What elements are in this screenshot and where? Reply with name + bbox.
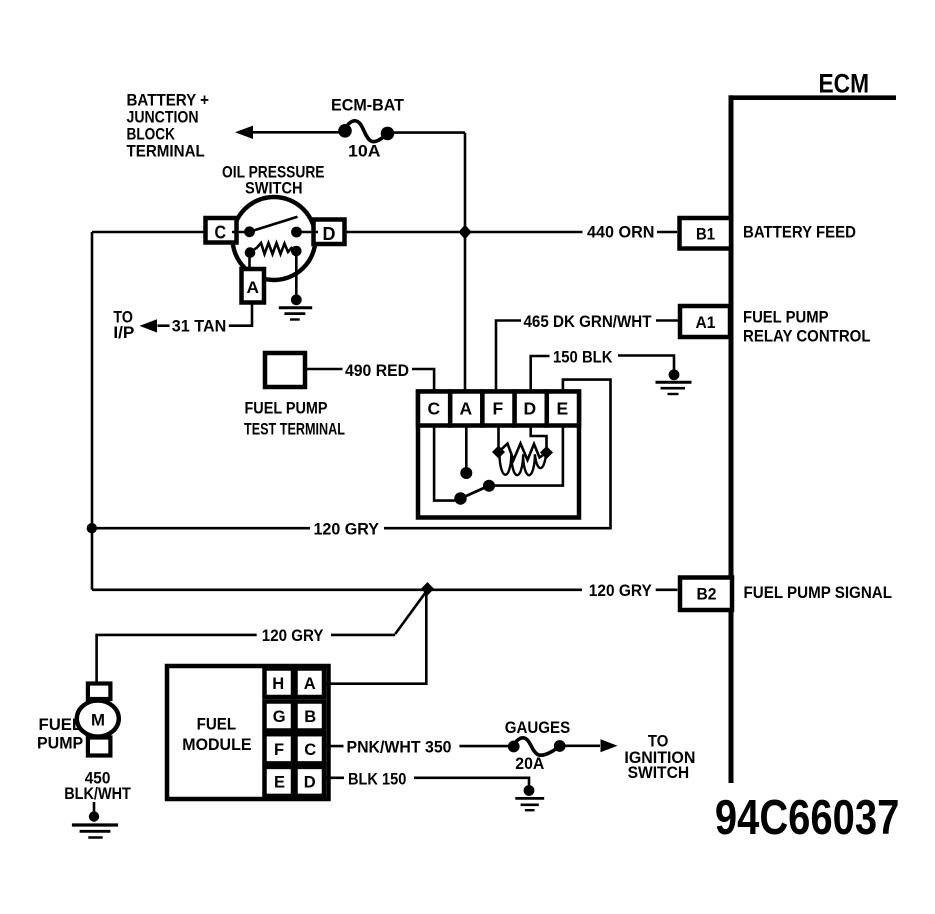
svg-text:SWITCH: SWITCH <box>245 179 303 198</box>
svg-text:B2: B2 <box>697 585 717 604</box>
svg-text:ECM: ECM <box>819 69 870 99</box>
svg-text:120 GRY: 120 GRY <box>314 519 380 538</box>
svg-text:A: A <box>247 278 260 297</box>
svg-text:BATTERY FEED: BATTERY FEED <box>743 223 856 242</box>
svg-text:E: E <box>557 399 569 419</box>
svg-text:20A: 20A <box>515 754 544 773</box>
svg-text:F: F <box>493 399 504 419</box>
svg-text:A: A <box>460 399 473 419</box>
svg-text:RELAY CONTROL: RELAY CONTROL <box>743 327 871 346</box>
svg-text:BLK/WHT: BLK/WHT <box>64 784 131 803</box>
svg-text:A1: A1 <box>696 313 716 332</box>
svg-text:MODULE: MODULE <box>182 735 251 754</box>
svg-text:GAUGES: GAUGES <box>505 718 571 737</box>
svg-text:FUEL PUMP SIGNAL: FUEL PUMP SIGNAL <box>744 583 893 602</box>
svg-text:D: D <box>304 774 316 792</box>
svg-text:120 GRY: 120 GRY <box>589 581 653 600</box>
svg-text:D: D <box>524 399 537 419</box>
svg-text:E: E <box>274 774 285 792</box>
svg-text:D: D <box>323 224 336 244</box>
svg-text:C: C <box>215 223 227 243</box>
svg-text:465 DK GRN/WHT: 465 DK GRN/WHT <box>524 312 653 331</box>
svg-text:FUEL: FUEL <box>197 714 237 733</box>
svg-text:G: G <box>273 708 286 726</box>
svg-text:FUEL PUMP: FUEL PUMP <box>245 399 328 418</box>
svg-text:FUEL PUMP: FUEL PUMP <box>743 308 829 327</box>
svg-text:I/P: I/P <box>113 323 134 342</box>
svg-text:TEST TERMINAL: TEST TERMINAL <box>244 420 345 439</box>
svg-text:H: H <box>272 675 284 693</box>
svg-text:C: C <box>428 399 441 419</box>
svg-text:C: C <box>304 741 316 759</box>
svg-text:31 TAN: 31 TAN <box>172 317 227 336</box>
svg-text:B: B <box>304 708 316 726</box>
svg-text:A: A <box>304 675 316 693</box>
svg-text:SWITCH: SWITCH <box>628 763 690 782</box>
svg-text:120 GRY: 120 GRY <box>262 626 324 645</box>
svg-text:BLK 150: BLK 150 <box>348 769 406 788</box>
svg-text:490 RED: 490 RED <box>345 361 409 380</box>
svg-text:F: F <box>274 741 284 759</box>
svg-text:TERMINAL: TERMINAL <box>127 142 205 161</box>
svg-text:PUMP: PUMP <box>37 734 83 753</box>
svg-text:94C66037: 94C66037 <box>715 791 899 845</box>
svg-text:B1: B1 <box>696 225 715 244</box>
svg-text:PNK/WHT 350: PNK/WHT 350 <box>347 737 452 756</box>
svg-text:150 BLK: 150 BLK <box>553 347 613 366</box>
svg-text:440 ORN: 440 ORN <box>587 223 655 242</box>
svg-text:M: M <box>91 711 105 730</box>
svg-text:10A: 10A <box>348 142 381 161</box>
svg-text:ECM-BAT: ECM-BAT <box>331 96 405 115</box>
